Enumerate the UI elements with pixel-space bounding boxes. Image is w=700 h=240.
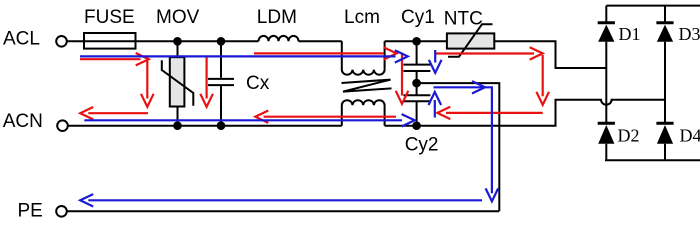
blue flow line along ACL <box>80 50 408 62</box>
wire ACN terminal to Lcm <box>68 125 342 127</box>
capacitor Cy1 plates <box>403 65 430 71</box>
svg-text:Lcm: Lcm <box>344 7 380 28</box>
svg-text:MOV: MOV <box>156 7 200 28</box>
varistor MOV lead <box>177 41 179 125</box>
wire Lcm to bridge lower input with hop over left rail <box>385 100 665 126</box>
red flow line LDM to Cy1 <box>254 47 397 59</box>
bridge right rail <box>664 6 666 161</box>
junction top MOV <box>173 37 182 46</box>
wire PE line <box>67 210 499 212</box>
red flow return from bridge leftwards <box>437 107 542 119</box>
bridge bottom bar <box>605 159 700 161</box>
thermistor NTC diagonal <box>448 24 493 57</box>
red flow arrow down left of MOV <box>141 57 154 107</box>
junction top Cx <box>217 37 226 46</box>
junction bottom Cx <box>217 121 226 130</box>
capacitor Cx plates <box>208 79 234 85</box>
wire Lcm to NTC to step-down <box>385 41 607 68</box>
svg-text:FUSE: FUSE <box>84 7 135 28</box>
bridge top bar <box>606 5 700 7</box>
wire fuse to LDM <box>136 40 259 42</box>
red flow line Cy1 to NTC to bridge <box>436 47 543 59</box>
varistor MOV body <box>170 57 185 106</box>
wire Cy1 to Cy2 <box>416 71 418 95</box>
svg-text:D4: D4 <box>680 126 700 146</box>
terminal PE <box>56 206 67 217</box>
red flow arrow down through Cx branch <box>200 57 213 107</box>
red flow return along ACN left <box>80 107 148 119</box>
svg-text:NTC: NTC <box>444 8 483 29</box>
red flow return along ACN middle <box>255 111 396 123</box>
blue flow arrow down into Cy1 <box>429 50 442 73</box>
svg-text:ACN: ACN <box>3 111 43 132</box>
choke Lcm core <box>342 80 392 92</box>
diode D1 <box>598 21 615 24</box>
svg-text:LDM: LDM <box>257 7 297 28</box>
choke Lcm top winding <box>342 41 385 74</box>
junction bottom Cy2 <box>412 121 421 130</box>
blue flow midpoint to PE drop <box>434 81 499 201</box>
svg-text:PE: PE <box>18 201 43 222</box>
capacitor Cx bottom lead <box>220 86 222 126</box>
inductor LDM <box>259 36 299 41</box>
svg-text:Cy2: Cy2 <box>405 135 439 156</box>
svg-text:D3: D3 <box>679 24 700 44</box>
varistor MOV diagonal <box>162 60 194 105</box>
fuse FUSE body <box>84 33 136 49</box>
terminal ACN <box>57 120 68 131</box>
bridge left rail <box>605 6 607 161</box>
choke Lcm bottom winding <box>342 100 385 125</box>
red flow arrow down at bridge input <box>536 55 549 105</box>
capacitor Cy2 bottom lead <box>416 101 418 125</box>
wire through fuse <box>84 40 136 42</box>
capacitor Cy2 plates <box>403 95 430 101</box>
capacitor Cx top lead <box>220 41 222 78</box>
svg-text:D2: D2 <box>618 126 640 146</box>
blue flow return along PE <box>80 194 482 206</box>
wire ACL terminal to fuse <box>67 40 84 42</box>
junction bottom MOV <box>173 121 182 130</box>
thermistor NTC body <box>447 33 494 48</box>
junction top Cy1 <box>412 37 421 46</box>
red flow arrow down beside Cy <box>396 53 409 104</box>
svg-text:Cx: Cx <box>246 73 270 94</box>
svg-text:ACL: ACL <box>3 29 40 50</box>
wire Cy midpoint to PE vertical <box>417 83 500 211</box>
blue flow arrow up from ACN through Cy2 <box>429 92 442 118</box>
terminal ACL <box>56 36 67 47</box>
capacitor Cy1 top lead <box>416 41 418 64</box>
red flow arrow along ACL into filter <box>80 53 149 65</box>
svg-text:D1: D1 <box>619 24 641 44</box>
diode D2 <box>598 122 615 125</box>
junction Cy midpoint <box>412 79 421 88</box>
svg-text:Cy1: Cy1 <box>401 7 435 28</box>
diode D3 <box>656 21 673 24</box>
blue flow along ACN to Cy2 <box>84 114 414 126</box>
wire LDM to Lcm <box>299 40 342 42</box>
diode D4 <box>656 122 673 125</box>
